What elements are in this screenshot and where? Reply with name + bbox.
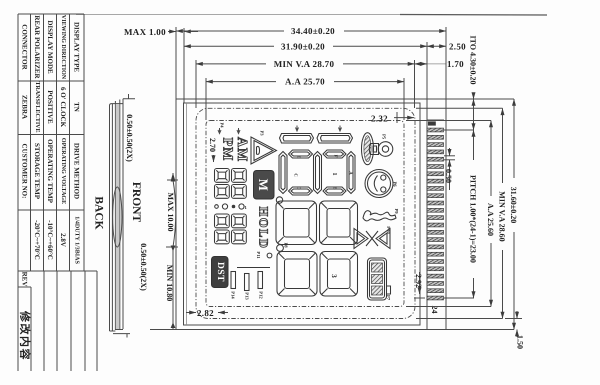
svg-text:HOLD: HOLD [257, 207, 271, 250]
svg-text:P6: P6 [393, 181, 398, 187]
marker row between small digits [215, 205, 219, 209]
svg-text:1.50: 1.50 [516, 335, 525, 349]
warning triangle segment [251, 137, 277, 164]
svg-text:ZEBRA: ZEBRA [21, 95, 29, 119]
svg-text:M: M [256, 179, 271, 191]
svg-text:OPERATING TEMP: OPERATING TEMP [46, 139, 54, 203]
spec table row1 values [21, 81, 81, 132]
svg-text:TN: TN [73, 102, 81, 112]
side view cross-section [110, 99, 124, 331]
svg-text:MAX 10.00: MAX 10.00 [166, 192, 175, 231]
connector pins x24 [427, 128, 444, 300]
pin24 extension [444, 297, 474, 299]
top extension lines [176, 27, 446, 120]
0.50 tick top [123, 94, 135, 99]
svg-text:POSITIVE: POSITIVE [46, 90, 54, 124]
svg-text:P8: P8 [284, 242, 289, 248]
digit1 7-seg rotated : verticals [279, 150, 355, 195]
spec table row2 labels [21, 138, 81, 204]
1.50 dim bottom right [505, 311, 522, 337]
A.A 25.60 dim [406, 120, 491, 122]
svg-text:1: 1 [245, 205, 248, 210]
pin1 indicator [428, 121, 436, 125]
svg-text:1: 1 [331, 173, 337, 176]
svg-text:ITO 4.30±0.20: ITO 4.30±0.20 [469, 36, 478, 85]
spec table row2 values [33, 216, 80, 264]
svg-text:34.40±0.20: 34.40±0.20 [291, 26, 335, 36]
svg-text:STORAGE TEMP: STORAGE TEMP [33, 143, 41, 200]
svg-text:1/4DUTY 1/3BIAS: 1/4DUTY 1/3BIAS [74, 216, 80, 264]
dim 34.40±0.20 [176, 30, 446, 32]
svg-text:A.A 25.70: A.A 25.70 [285, 77, 325, 87]
24 connector pins [427, 128, 444, 132]
svg-text:REAR POLARIZER: REAR POLARIZER [33, 15, 41, 79]
svg-text:P9: P9 [394, 208, 399, 214]
battery segment [368, 258, 387, 300]
dim MIN V.A 28.70 [196, 63, 415, 65]
svg-text:2.8V: 2.8V [59, 233, 67, 247]
svg-text:31.60±0.20: 31.60±0.20 [509, 187, 518, 223]
revision table [18, 271, 97, 371]
svg-text:MIN V.A 28.60: MIN V.A 28.60 [498, 191, 507, 241]
svg-text:0.50: 0.50 [444, 169, 453, 183]
svg-text:BACK: BACK [93, 196, 105, 229]
svg-text:DISPLAY MODE: DISPLAY MODE [46, 20, 54, 74]
svg-text:2.82: 2.82 [197, 308, 214, 318]
svg-text:P10: P10 [386, 226, 391, 234]
colon dots [276, 197, 282, 203]
dim 1.70 [415, 63, 428, 65]
svg-text:E: E [297, 155, 302, 158]
svg-text:DRIVE METHOD: DRIVE METHOD [73, 143, 81, 199]
svg-text:P13: P13 [245, 292, 250, 300]
svg-text:0.50±0.50(2X): 0.50±0.50(2X) [139, 243, 148, 291]
spec table borders [18, 14, 97, 271]
ITO edge line on ledge [427, 119, 444, 121]
svg-text:OPERATING VOLTAGE: OPERATING VOLTAGE [60, 138, 66, 204]
svg-text:CUSTOMER NO:: CUSTOMER NO: [21, 144, 29, 199]
svg-text:CONNECTOR: CONNECTOR [21, 24, 29, 70]
svg-text:31.90±0.20: 31.90±0.20 [281, 41, 325, 51]
MAX 10.00 / MIN 10.80 dims [150, 173, 178, 330]
M mode box segment [254, 171, 275, 200]
svg-text:P7: P7 [386, 295, 391, 301]
svg-text:A.A 25.60: A.A 25.60 [486, 203, 495, 236]
svg-text:B: B [333, 186, 338, 189]
svg-text:0.50±0.50(2X): 0.50±0.50(2X) [125, 114, 134, 162]
dim 0.50 pin width [444, 148, 455, 190]
spec table row1 labels [21, 15, 81, 80]
zebra ellipse [113, 187, 122, 247]
svg-text:P14: P14 [231, 291, 236, 299]
PITCH dim line [473, 130, 475, 298]
wave squiggle segment [363, 211, 396, 221]
svg-text:P4: P4 [220, 122, 225, 128]
pin stubs P14 P13 P12 [231, 268, 270, 291]
V.A. border dash-dot rounded [196, 108, 415, 318]
svg-text:-10°C~+60°C: -10°C~+60°C [46, 220, 54, 260]
svg-text:F: F [334, 155, 339, 158]
faint sheet border line top [76, 14, 400, 16]
svg-text:DISPLAY TYPE: DISPLAY TYPE [73, 22, 81, 72]
svg-text:P3: P3 [260, 130, 265, 136]
svg-text:2.92: 2.92 [414, 274, 423, 288]
top trapezoid segments [280, 134, 314, 144]
svg-text:DST: DST [215, 262, 225, 282]
svg-text:PM: PM [220, 138, 235, 162]
svg-text:AM: AM [234, 137, 249, 162]
svg-text:1.70: 1.70 [447, 59, 464, 69]
svg-text:REV: REV [21, 272, 29, 287]
svg-text:C: C [294, 173, 299, 176]
svg-text:2.50: 2.50 [449, 42, 466, 52]
bowtie segment [354, 229, 390, 249]
2.92 dim [414, 272, 425, 298]
svg-text:2.70: 2.70 [208, 138, 217, 152]
svg-text:VIEWING DIRECTION: VIEWING DIRECTION [60, 15, 66, 80]
polarizer rect [184, 103, 421, 325]
dim 31.90±0.20 [184, 45, 427, 47]
smiley segment [365, 170, 393, 198]
bell oval icon [362, 133, 374, 165]
MIN V.A 28.60 dim [416, 107, 503, 109]
dim A.A 25.70 [206, 81, 404, 83]
svg-text:PITCH 1.00*(24-1)=23.00: PITCH 1.00*(24-1)=23.00 [469, 175, 478, 263]
31.60±0.20 dim [446, 98, 514, 100]
svg-text:P12: P12 [259, 291, 264, 299]
svg-text:TRANSFLECTIVE: TRANSFLECTIVE [34, 81, 40, 132]
dim 2.50 [427, 45, 446, 47]
svg-text:D: D [297, 186, 302, 190]
svg-text:6 O' CLOCK: 6 O' CLOCK [59, 87, 67, 128]
svg-text:MIN V.A 28.70: MIN V.A 28.70 [274, 59, 335, 69]
svg-text:2.32: 2.32 [371, 114, 388, 124]
glass outer rect (bottom glass) [176, 99, 446, 330]
svg-text:-20°C~+70°C: -20°C~+70°C [33, 220, 41, 260]
2.82 dim bottom left [186, 312, 196, 314]
svg-text:MAX 1.00: MAX 1.00 [124, 27, 166, 37]
svg-text:P11: P11 [256, 251, 261, 259]
svg-text:FRONT: FRONT [130, 182, 142, 223]
svg-text:3: 3 [330, 274, 338, 278]
0.50 tick bottom [113, 334, 130, 338]
small+big digit pillow cells [215, 169, 230, 183]
seg leader ticks [218, 128, 221, 134]
key segment [369, 142, 393, 157]
pin1 extension [444, 129, 474, 131]
A.A. border dash-dot [206, 121, 404, 307]
svg-text:修改内容: 修改内容 [18, 310, 31, 361]
DST segment (inverse) [212, 257, 229, 288]
svg-text:P5: P5 [382, 134, 387, 140]
svg-text:MIN 10.80: MIN 10.80 [165, 265, 174, 301]
top glass right edge [426, 99, 428, 330]
